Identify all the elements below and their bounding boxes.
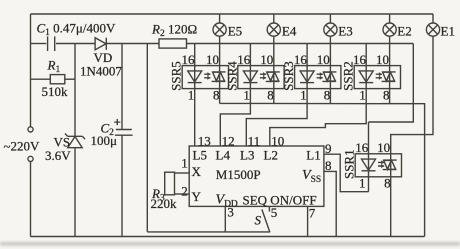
wire bottom rail <box>31 236 425 238</box>
wire IC pin9 to SSR1 pin1 <box>324 154 369 192</box>
svg-text:SEQ ON/OFF: SEQ ON/OFF <box>243 192 317 207</box>
wire E2 to SSR pin10 <box>389 36 391 65</box>
svg-text:L3: L3 <box>240 148 254 163</box>
svg-text:16: 16 <box>182 52 196 67</box>
zener VS <box>65 134 85 148</box>
wire VS to bottom rail <box>74 148 76 237</box>
optocoupler SSR SSR3 <box>295 66 341 89</box>
wire VD to R2 <box>107 43 160 45</box>
wire SSR5 pin1 to IC pin13 <box>194 89 196 146</box>
svg-text:E5: E5 <box>228 23 242 38</box>
svg-text:1: 1 <box>188 88 195 103</box>
resistor R3 <box>165 172 175 195</box>
wire SSR3 pin16 to rail A <box>306 44 308 66</box>
wire top rail <box>31 13 434 15</box>
svg-text:S: S <box>255 212 262 227</box>
svg-text:E3: E3 <box>338 23 352 38</box>
IC U1 M1500P <box>189 146 324 206</box>
svg-text:9: 9 <box>325 141 332 156</box>
diode VD <box>95 38 106 50</box>
svg-text:11: 11 <box>248 133 261 148</box>
wire E5 to SSR pin10 <box>219 36 221 65</box>
wire SSR2 pin16 to rail A <box>365 44 367 66</box>
svg-text:3.6V: 3.6V <box>45 148 71 163</box>
svg-text:16: 16 <box>237 52 251 67</box>
wire pin8 bus <box>220 89 425 237</box>
resistor R2 <box>159 39 187 48</box>
wire VDD supply horizontal <box>147 231 270 233</box>
terminal upper ~220V <box>28 127 33 132</box>
optocoupler SSR SSR2 <box>354 66 400 89</box>
wire R3 to pin X <box>175 172 190 174</box>
wire lamp E1 to SSR1 pin10 <box>391 36 433 154</box>
wire SSR5 pin16 to rail A <box>194 44 196 66</box>
wire IC pin3 VDD <box>224 206 226 232</box>
svg-text:1: 1 <box>181 156 188 171</box>
svg-text:1: 1 <box>359 88 366 103</box>
svg-text:Y: Y <box>192 189 202 204</box>
wire R1 right <box>65 78 75 80</box>
svg-text:510k: 510k <box>42 84 69 99</box>
svg-text:10: 10 <box>377 140 390 155</box>
svg-text:13: 13 <box>198 133 211 148</box>
svg-text:8: 8 <box>213 88 220 103</box>
lamp E3 <box>324 14 337 36</box>
svg-text:1: 1 <box>359 176 366 191</box>
svg-text:16: 16 <box>355 140 369 155</box>
wire SSR3 pin1 to IC pin11 <box>246 89 307 146</box>
svg-text:8: 8 <box>383 88 390 103</box>
svg-text:1: 1 <box>300 88 307 103</box>
lamp E2 <box>383 14 396 36</box>
svg-text:1N4007: 1N4007 <box>80 64 122 79</box>
wire SSR4 pin16 to rail A <box>249 44 251 66</box>
svg-text:M1500P: M1500P <box>216 167 261 182</box>
svg-text:8: 8 <box>267 88 274 103</box>
wire SSR2 pin1 to IC pin10 <box>270 89 366 146</box>
svg-text:E4: E4 <box>282 23 297 38</box>
svg-text:L1: L1 <box>306 148 320 163</box>
svg-text:10: 10 <box>317 52 330 67</box>
lamp E4 <box>267 14 280 36</box>
capacitor C2 <box>115 130 133 136</box>
optocoupler SSR SSR4 <box>238 66 284 89</box>
wire R1 left <box>31 78 51 80</box>
svg-text:10: 10 <box>206 52 219 67</box>
svg-text:L4: L4 <box>216 148 231 163</box>
wire C2 top <box>121 44 123 129</box>
svg-text:E1: E1 <box>441 23 455 38</box>
svg-text:8: 8 <box>324 88 331 103</box>
svg-text:2: 2 <box>181 183 188 198</box>
wire C2 bottom <box>121 135 123 236</box>
svg-text:5: 5 <box>271 205 278 220</box>
svg-text:8: 8 <box>325 158 332 173</box>
svg-text:8: 8 <box>384 176 391 191</box>
wire main node A segment <box>31 43 47 45</box>
wire left border lower <box>30 162 32 237</box>
resistor R1 <box>50 75 65 84</box>
wire VDD supply vertical <box>146 44 148 232</box>
svg-text:+: + <box>114 115 121 130</box>
wire IC pin8 VSS to bottom rail <box>324 171 336 236</box>
svg-text:100μ: 100μ <box>91 133 118 148</box>
svg-text:~220V: ~220V <box>4 139 41 154</box>
wire E4 to SSR pin10 <box>273 36 275 65</box>
wire SSR4 pin1 to IC pin12 <box>220 89 250 146</box>
capacitor C1 <box>48 36 55 51</box>
scan shadow bottom <box>0 243 460 246</box>
wire E3 to SSR pin10 <box>329 36 331 65</box>
lamp E5 <box>213 14 226 36</box>
svg-text:3: 3 <box>227 204 234 219</box>
svg-text:1: 1 <box>243 88 250 103</box>
svg-text:10: 10 <box>376 52 389 67</box>
wire IC pin5 stub <box>268 206 270 211</box>
svg-text:L5: L5 <box>193 148 207 163</box>
svg-text:12: 12 <box>222 133 235 148</box>
terminal lower ~220V <box>28 156 33 161</box>
wire rail A <box>187 43 414 45</box>
wire rail A to SSR1 pin16 <box>369 44 414 154</box>
wire R3 to pin Y <box>175 193 190 195</box>
svg-text:7: 7 <box>309 205 316 220</box>
svg-text:E2: E2 <box>397 23 411 38</box>
svg-text:16: 16 <box>353 52 367 67</box>
wire C1 to VD <box>56 43 95 45</box>
optocoupler SSR SSR1 <box>355 154 401 177</box>
svg-text:R2 120Ω: R2 120Ω <box>151 22 197 40</box>
svg-text:10: 10 <box>260 52 273 67</box>
svg-text:16: 16 <box>294 52 308 67</box>
switch S blade <box>262 209 270 232</box>
svg-text:220k: 220k <box>151 196 178 211</box>
wire SSR1 pin8 to bottom rail <box>390 177 392 237</box>
svg-text:X: X <box>192 164 202 179</box>
svg-text:L2: L2 <box>264 148 278 163</box>
wire IC pin7 to bottom rail <box>307 206 309 236</box>
wire left border upper <box>30 14 32 127</box>
wire node A vertical <box>74 44 76 136</box>
lamp E1 <box>426 14 439 36</box>
optocoupler SSR SSR5 <box>182 66 228 89</box>
svg-text:10: 10 <box>271 133 284 148</box>
